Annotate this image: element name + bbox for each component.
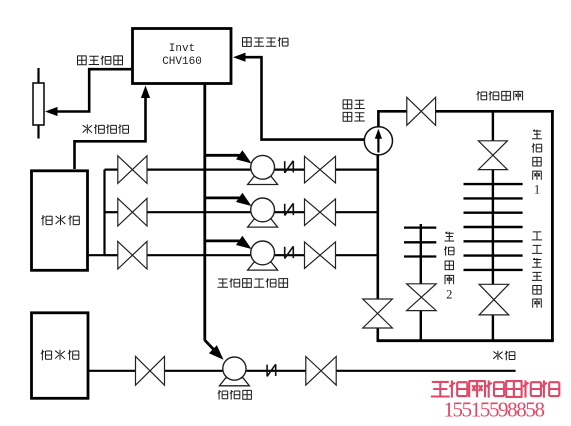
inverter box U1 Invt CHV160 <box>133 29 232 84</box>
label 生活管网1 <box>532 130 542 197</box>
valve V12 sewage suction <box>136 356 165 385</box>
level sensor LS1 <box>33 68 44 139</box>
label 污水池 <box>41 350 79 360</box>
valve V3b discharge <box>305 242 336 269</box>
wire right manifold <box>551 111 554 340</box>
pump P3 <box>248 241 278 270</box>
wire pressure-setpoint <box>45 69 131 116</box>
wire discharge collector <box>376 155 379 342</box>
manifold ticks industrial <box>464 184 523 270</box>
wire level-control <box>75 86 151 170</box>
tank 污水池 <box>32 313 89 399</box>
wire top manifold <box>377 110 554 113</box>
svg-text:2: 2 <box>446 287 452 301</box>
drive arrow to pump P3 <box>205 236 252 249</box>
valve V13 sewage discharge <box>306 357 336 386</box>
svg-text:1: 1 <box>534 182 540 196</box>
drive arrow to pump P1 <box>205 150 252 163</box>
svg-text:15515598858: 15515598858 <box>443 398 544 422</box>
wire pressure-feedback <box>233 53 365 140</box>
wire pump branch 1 <box>105 169 378 171</box>
label 生活管网2 <box>444 232 454 302</box>
check valve CK3 <box>285 246 294 258</box>
valve V1a suction <box>118 156 147 184</box>
label 排污泵 <box>218 390 252 400</box>
label 工业生产管网 <box>532 232 542 308</box>
pressure gauge PG1 <box>364 127 392 155</box>
label 环形管网 <box>477 91 523 101</box>
label 压力给定 <box>77 56 123 66</box>
label 压力反馈 <box>242 37 288 47</box>
manifold ticks domestic-2 <box>404 228 436 257</box>
label 变频或工频泵 <box>218 278 289 288</box>
check valve CK4 <box>267 364 276 376</box>
valve V7 ring main <box>407 97 436 125</box>
wire pump branch 3 <box>105 254 378 256</box>
svg-text:Invt: Invt <box>169 43 195 55</box>
pump P1 <box>248 155 278 184</box>
label 变频器销售维修 (red) <box>431 380 559 397</box>
drive arrow to pump P2 <box>205 193 252 206</box>
wire sewage line <box>88 370 516 372</box>
wire bottom manifold <box>377 339 554 342</box>
valve V3a suction <box>118 241 147 269</box>
valve V10 industrial top <box>478 141 507 170</box>
wire inverter drive bus <box>205 84 224 360</box>
valve V1b discharge <box>305 156 336 183</box>
check valve CK1 <box>285 161 294 173</box>
label 水位控制 <box>83 124 129 134</box>
valve V11 industrial bottom <box>479 284 509 315</box>
valve V2b discharge <box>305 199 336 226</box>
label 清水池 <box>41 215 79 225</box>
wire tank suction manifold <box>88 170 105 256</box>
check valve CK2 <box>285 203 294 215</box>
wire pump branch 2 <box>105 211 378 213</box>
label 外排 <box>493 351 515 361</box>
wire industrial branch <box>492 111 494 340</box>
wire gauge riser <box>377 110 380 127</box>
svg-text:CHV160: CHV160 <box>162 56 202 68</box>
pump P4 sewage <box>219 357 249 386</box>
label 压力显示 <box>343 100 365 109</box>
valve V8 collector drain <box>363 299 393 328</box>
tank 清水池 <box>32 171 88 270</box>
valve V9 domestic-2 <box>407 284 437 311</box>
valve V2a suction <box>118 198 147 226</box>
wire domestic-2 branch <box>420 224 422 341</box>
pump P2 <box>248 198 278 227</box>
